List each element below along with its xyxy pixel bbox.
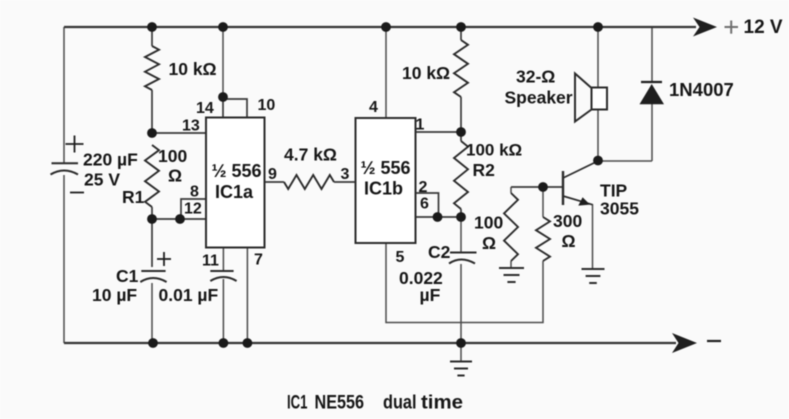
svg-text:Speaker: Speaker xyxy=(505,88,573,108)
svg-text:5: 5 xyxy=(396,249,405,266)
svg-text:12: 12 xyxy=(184,201,202,218)
svg-text:NE556: NE556 xyxy=(315,392,365,414)
svg-text:IC1b: IC1b xyxy=(364,179,403,199)
svg-text:µF: µF xyxy=(420,285,441,305)
svg-text:9: 9 xyxy=(268,166,277,183)
svg-text:3055: 3055 xyxy=(600,199,639,219)
svg-text:IC1a: IC1a xyxy=(215,182,254,202)
svg-text:10 kΩ: 10 kΩ xyxy=(169,59,217,79)
svg-text:4: 4 xyxy=(369,99,378,116)
svg-text:Ω: Ω xyxy=(168,166,182,186)
svg-text:25 V: 25 V xyxy=(84,170,120,190)
svg-text:300: 300 xyxy=(553,211,582,231)
svg-text:12 V: 12 V xyxy=(744,17,783,38)
svg-text:11: 11 xyxy=(202,253,219,270)
svg-text:Ω: Ω xyxy=(562,231,576,251)
svg-text:2: 2 xyxy=(419,179,428,196)
svg-text:10 kΩ: 10 kΩ xyxy=(402,63,450,83)
svg-text:100 kΩ: 100 kΩ xyxy=(466,141,522,160)
svg-text:TIP: TIP xyxy=(600,181,628,201)
svg-text:3: 3 xyxy=(341,166,350,183)
svg-text:100: 100 xyxy=(158,146,187,166)
svg-text:10 µF: 10 µF xyxy=(92,285,137,305)
svg-text:R2: R2 xyxy=(473,160,496,180)
svg-text:8: 8 xyxy=(190,184,199,201)
svg-text:32-Ω: 32-Ω xyxy=(516,67,555,87)
svg-text:C1: C1 xyxy=(116,266,139,286)
svg-text:100: 100 xyxy=(474,213,503,233)
svg-text:220 µF: 220 µF xyxy=(83,150,138,170)
svg-text:R1: R1 xyxy=(122,187,145,207)
svg-text:Ω: Ω xyxy=(482,233,496,253)
svg-text:1N4007: 1N4007 xyxy=(669,79,734,100)
svg-text:½ 556: ½ 556 xyxy=(212,161,262,181)
svg-text:½ 556: ½ 556 xyxy=(361,158,411,178)
svg-text:1: 1 xyxy=(416,117,425,134)
svg-text:dual: dual xyxy=(383,392,417,414)
svg-text:10: 10 xyxy=(258,97,276,114)
svg-text:0.01 µF: 0.01 µF xyxy=(159,285,219,305)
svg-text:4.7 kΩ: 4.7 kΩ xyxy=(284,145,337,165)
svg-text:13: 13 xyxy=(182,118,200,135)
svg-text:6: 6 xyxy=(420,196,429,213)
svg-text:C2: C2 xyxy=(428,242,451,262)
svg-text:IC1: IC1 xyxy=(287,392,308,414)
svg-text:time: time xyxy=(421,392,463,414)
svg-text:14: 14 xyxy=(196,100,214,117)
svg-text:7: 7 xyxy=(254,252,263,269)
